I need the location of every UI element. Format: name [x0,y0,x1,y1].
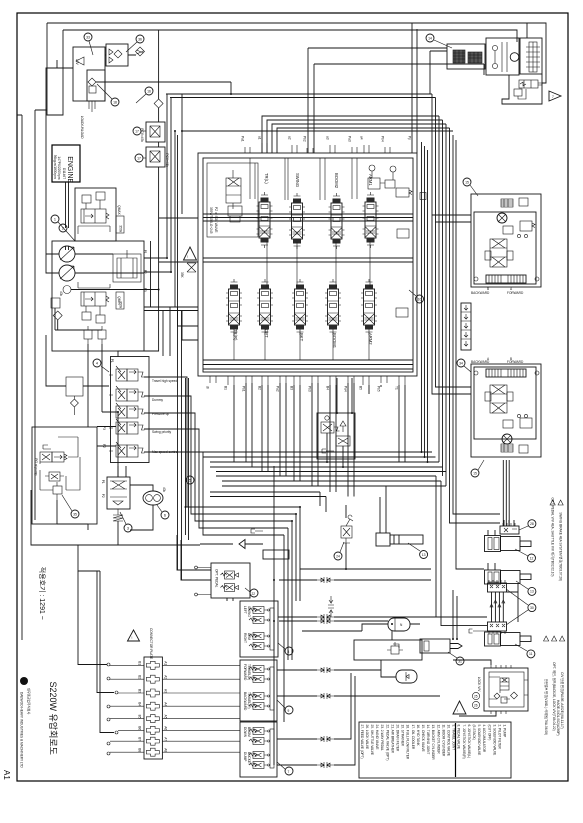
svg-text:Pb2: Pb2 [302,136,306,142]
spool BOOM2 [329,193,345,249]
check diamond mid [239,540,245,549]
svg-text:적용호기 : 1291 ~: 적용호기 : 1291 ~ [38,567,47,620]
filter diamond D18 [154,99,163,108]
wire x150 drop [150,241,152,307]
svg-text:2. PILOT FILTER: 2. PILOT FILTER [498,725,502,750]
svg-text:B3: B3 [138,689,142,693]
svg-text:21. AIR BREATHER: 21. AIR BREATHER [390,725,394,754]
boom cylinder 3 piston [488,634,492,644]
junction dot [427,461,429,463]
callout 33 [84,33,92,41]
svg-text:12. ARM CYLINDER: 12. ARM CYLINDER [436,725,440,755]
callout 17 [135,154,143,162]
wire riser pair b [177,135,179,307]
wire nested corner 3 [272,124,446,153]
tank gallery line 3 [203,368,413,370]
svg-text:56kg-m/1800rpm: 56kg-m/1800rpm [53,155,57,179]
boom cylinder 1 barrel [501,537,521,551]
negative control relief box [317,413,355,459]
wire long y544 [118,544,200,546]
boom hold circle a [369,165,375,171]
svg-text:(CUT OFF): (CUT OFF) [487,725,491,741]
wire cylinder13 risers [380,486,386,533]
svg-text:DUMP: DUMP [243,752,247,761]
small inline valve on bundle [420,193,426,200]
junction dot [230,93,232,95]
daewoo logo mark [20,677,28,685]
main relief square [51,298,60,308]
svg-text:Pa3: Pa3 [347,136,351,142]
svg-text:A3: A3 [164,689,168,693]
wire right bundle v5 [445,124,447,486]
svg-text:PCV=45k: PCV=45k [140,128,144,142]
junction dot [170,271,172,273]
svg-text:P3: P3 [102,426,106,430]
joystick group 3 box [240,722,277,777]
wire main pressure line y97 [170,97,436,99]
svg-text:25: 25 [474,695,478,699]
filter diamond F1 [114,50,122,58]
bolt circle left [474,277,478,281]
wire bundle A3 [216,471,446,473]
swing relief box [447,44,485,69]
pilot part bottom right [519,445,528,453]
bolt circle right [535,277,539,281]
svg-text:24. HAND VALVE: 24. HAND VALVE [375,725,379,750]
svg-text:B1: B1 [223,386,227,390]
svg-text:18: 18 [113,100,117,104]
svg-text:6: 6 [164,513,166,517]
svg-text:A1: A1 [2,770,11,780]
callout 10 [416,295,424,303]
travel motor 2 M [502,434,512,444]
wire bank drop 1 [234,383,405,497]
accumulator capsule [388,618,410,631]
svg-text:15. CHECK VALVE: 15. CHECK VALVE [421,725,425,752]
pump main box [52,241,144,351]
bucket cylinder piston [424,641,429,651]
air breather box 33 [73,47,105,101]
svg-text:Pa1: Pa1 [240,136,244,142]
wire vertical x417 [416,29,418,153]
wire pump outlet P2 [75,98,171,274]
negcon pilot circle [325,416,329,420]
wire left edge long [17,115,22,640]
svg-text:A4: A4 [164,702,168,706]
pilot part top right [519,198,528,206]
svg-text:5. SOLENOID VALVE: 5. SOLENOID VALVE [477,725,481,756]
svg-text:BOOM2: BOOM2 [334,173,339,189]
junction dot [181,130,183,132]
svg-text:26: 26 [474,704,478,708]
counterbalance spool [490,239,507,267]
boom cylinder 3 cap [485,632,501,646]
svg-text:A7: A7 [164,737,168,741]
shuttle circles [517,234,520,237]
junction dot [185,506,187,508]
boom cylinder 1 rod [520,541,531,547]
svg-text:BKT: BKT [299,333,304,342]
callout 26 [472,701,479,708]
svg-text:P1: P1 [143,250,147,254]
wire pilot supply rc [273,466,275,765]
callout 12 [528,554,536,562]
svg-text:B1: B1 [138,661,142,665]
travel motor 1 inner box [474,212,536,284]
spool TR(R) [226,279,242,335]
wire return line r2 [203,456,436,458]
svg-text:QMAX: QMAX [117,205,121,215]
pilot valve a [40,452,52,462]
svg-text:19. STRAINER: 19. STRAINER [401,725,405,747]
svg-text:B2: B2 [257,386,261,390]
svg-text:대우중공업주식회사: 대우중공업주식회사 [27,688,32,714]
joystick group 1 box [240,601,278,657]
wire qd row a line [279,579,431,581]
svg-text:BACKWARD: BACKWARD [243,692,247,711]
svg-text:36: 36 [138,37,142,41]
connector cross 5 [146,715,159,723]
spool ARM2 [361,279,377,335]
callout 6 [161,511,169,519]
junction dot [295,513,297,515]
junction dot [421,451,423,453]
svg-text:ARM2: ARM2 [368,333,373,345]
boom hold circle b [390,166,396,172]
check valve box [106,44,128,66]
svg-text:7: 7 [288,770,290,774]
swing lower box [502,74,542,104]
pump P2 [59,265,75,281]
pump P1 [59,246,75,262]
drive shaft [66,182,69,228]
svg-text:30: 30 [530,606,534,610]
wire return line r1 [203,451,432,453]
svg-text:CONNECTOR PLATE: CONNECTOR PLATE [149,628,153,659]
callout 16 [145,87,153,95]
E vent symbol [469,629,487,633]
wire bundle A4 [216,476,487,617]
wire p2 supply a [144,306,198,308]
svg-text:11: 11 [529,652,533,656]
rc valves boom/bucket [253,728,264,735]
svg-text:13: 13 [530,590,534,594]
wire breather to filter [105,54,136,56]
svg-text:OPT: OPT [264,329,269,338]
svg-text:35: 35 [73,512,77,516]
wire top bus 1 [47,23,546,83]
work port risers row1 [250,158,357,200]
wire sol outputs 4 [144,429,288,660]
mid gallery line 2 [203,261,413,263]
wire pedal to group1 [227,598,233,601]
svg-text:PZ of SOL VALVE: PZ of SOL VALVE [214,207,218,232]
bucket cylinder barrel [420,639,450,653]
counterbalance pilot 2 [520,418,532,428]
brake shoe band 2 [486,369,526,377]
travel motor 2 inner box [474,367,536,439]
svg-text:14. TURNING JOINT: 14. TURNING JOINT [426,725,430,755]
svg-text:17: 17 [135,129,139,133]
rc valves travel [253,666,264,673]
wire pump drains [55,308,118,477]
wire drain to bus [430,51,484,94]
solenoid valve 5 [116,445,127,457]
svg-text:RIGHT: RIGHT [243,633,247,643]
bolt circle left 2 [474,371,478,375]
wire pg line y131 [182,130,453,132]
junction dot [273,579,275,581]
hose connector strip [461,303,471,350]
counterbalance pilot [520,221,532,231]
swing motor M [510,53,519,62]
main control valve inner box [203,158,413,372]
relief bowtie 35K [187,263,196,272]
wire right bundle v0a [421,142,423,452]
wire tank line x35 [35,110,47,520]
wire nested corner 1 [262,116,439,153]
svg-text:LEFT: LEFT [243,606,247,614]
wire sol feeds top [163,307,170,356]
wire right bundle v3 [438,116,440,462]
manifold upper [488,583,507,592]
svg-text:FORWARD: FORWARD [507,360,524,364]
svg-text:28: 28 [530,522,534,526]
svg-text:13. BUCKET CYLINDER: 13. BUCKET CYLINDER [431,725,435,761]
warning triangle right [549,91,561,101]
svg-text:1: 1 [54,217,56,221]
hose burst valve top [500,526,519,534]
svg-text:B6: B6 [138,726,142,730]
junction dot [273,620,275,622]
svg-text:13: 13 [422,553,426,557]
brake ladder [529,42,537,72]
wire nested corner 2 [267,120,443,153]
relief oval 40k pair [143,491,163,505]
svg-text:6. JOYSTICK VALVE(L): 6. JOYSTICK VALVE(L) [467,725,471,759]
svg-text:22. PEDAL VALVE (OPT): 22. PEDAL VALVE (OPT) [385,725,389,761]
solenoid valve 1 [116,369,127,381]
wire pilot line to swing B [314,63,484,65]
svg-text:18. FULL FLOW FILTER: 18. FULL FLOW FILTER [406,725,410,760]
wire bundle A6 [222,485,446,487]
regulator upper pilot parts [82,195,91,203]
wire vertical x308 [307,48,309,153]
junction dot [456,638,458,640]
svg-text:9. TRAVEL JOINT: 9. TRAVEL JOINT [452,725,456,751]
relief hatch bottom [501,444,513,452]
mini label plate lower [116,292,124,309]
pedal valve a [225,571,235,579]
swing relief valve B [468,52,482,63]
arm cylinder rod line [394,535,399,544]
svg-text:S220W 유압회로도: S220W 유압회로도 [48,682,59,755]
wire right bundle v0c [427,150,429,462]
port stubs top [245,143,390,153]
junction dot [391,623,393,625]
servo piston box [113,254,141,282]
svg-text:P1: P1 [110,359,114,363]
callout 35 [71,510,79,518]
svg-text:T1: T1 [394,386,398,390]
callout 28 [528,520,536,528]
wire pilot corridor ext b [181,311,183,581]
wire pedal supply [177,535,211,580]
svg-text:26. LOCK VALVE: 26. LOCK VALVE [365,725,369,750]
pilot partition box [207,163,258,237]
warning triangle lock [453,701,466,714]
svg-text:(5-STACK): (5-STACK) [472,725,476,740]
connector plate box [144,657,162,759]
spool TR(L) [257,192,273,248]
svg-text:!: ! [187,255,188,259]
svg-text:B2: B2 [138,675,142,679]
svg-text:10. CONTROL VALVE: 10. CONTROL VALVE [447,725,451,756]
wire sol inputs left [97,427,116,447]
callout 15 [463,178,471,186]
wire unload to pg [96,82,231,94]
svg-text:2: 2 [62,226,64,230]
pedal terminals [197,568,211,595]
center bypass line 2 [203,217,413,219]
spool SWING [289,193,305,249]
svg-text:Dummy: Dummy [152,398,163,402]
brake shoe band [486,275,526,283]
boom hold valve b [385,180,395,188]
svg-text:16: 16 [147,89,151,93]
callout 5 [186,476,194,484]
svg-text:TR(R): TR(R) [233,329,238,341]
svg-text:1. PUMP: 1. PUMP [503,725,507,738]
mini label plate upper [116,216,124,233]
shuttle circles 2 [517,414,520,417]
check valve b [492,63,497,68]
svg-text:31: 31 [458,659,462,663]
mid gallery line 1 [203,257,413,259]
svg-text:9: 9 [288,709,290,713]
drive shaft into pump [66,246,69,250]
note triangle 2b [552,636,557,641]
wire sol block left [46,335,66,386]
wire pump outlet P1 [75,94,167,258]
wire staircase 1 [31,490,100,571]
svg-text:27. FEED VALVE (OPT): 27. FEED VALVE (OPT) [360,725,364,759]
pilot reducing valve column [107,477,130,509]
boom hold valve a [368,178,380,189]
svg-text:D1146T: D1146T [62,168,66,179]
warning triangle connector [128,630,140,641]
wire bundle B1 [210,492,320,506]
connector cross 6 [146,726,159,734]
pilot line entering block [83,385,109,387]
connector cross 8 [146,748,159,756]
connector cross 2 [146,675,159,683]
note triangle 1a [550,500,555,505]
quick disconnect row a [317,577,334,583]
junction dot [342,466,344,468]
quick disconnect col 3 [317,693,334,699]
callout 2 [59,224,67,232]
svg-text:B7: B7 [138,737,142,741]
svg-text:4. ACCUMULATOR: 4. ACCUMULATOR [482,725,486,753]
wire travel1 inlet b [436,221,472,223]
lock valve box [484,668,528,711]
svg-text:HAOE-0401-S02(A289P): HAOE-0401-S02(A289P) [556,700,560,736]
boom cylinder 2 piston [488,572,492,582]
negcon drop wires [327,433,343,467]
wire right column drop [503,460,509,526]
svg-text:a4: a4 [359,136,363,140]
svg-text:DOWN: DOWN [243,727,247,738]
regulator lower valve [81,292,106,306]
svg-text:23. 2-WAY PEDAL: 23. 2-WAY PEDAL [380,725,384,752]
callout 30 [528,604,536,612]
callout 4 [93,359,101,367]
pedal valve box 22 [211,563,250,598]
wire connector feeds [78,571,114,733]
pilot relief sym a [150,126,160,137]
lock valve spool [500,678,509,690]
arm cylinder body [390,535,423,544]
junction dot [117,411,119,413]
wire riser pair a [174,131,176,307]
lock valve check circle [494,690,510,699]
svg-text:FORWARD: FORWARD [243,664,247,681]
wire pg to bank left [159,131,198,262]
manifold pipes [492,592,504,622]
svg-text:DAEWOO HEAVY INDUSTRIES & MACH: DAEWOO HEAVY INDUSTRIES & MACHINERY LTD [20,692,24,768]
pump pilot control box [32,427,97,524]
wire hand valve [300,505,431,569]
svg-text:A6: A6 [164,726,168,730]
leader lines rc [245,588,285,769]
wire main pressure line y94 [166,93,432,95]
wires pilot block bottom [57,500,88,530]
spool BKT [292,279,308,335]
side check blocks [485,251,491,260]
svg-text:34: 34 [459,361,463,365]
anti-inversion valve M/L [519,80,538,88]
boom cylinder 3 barrel [501,633,521,646]
lock valve small parts [501,697,507,703]
check valve arrows [109,49,113,63]
check filter left of block [66,377,83,396]
wire bundle A1 [210,461,439,463]
counterbalance spool 2 [490,385,507,413]
svg-text:355V/745B-G+245: 355V/745B-G+245 [209,207,213,234]
regulator lower pilot parts [82,312,91,320]
svg-text:B: B [487,287,489,291]
wire breather drop [89,101,95,112]
callout 36 [136,35,144,43]
svg-text:B4: B4 [138,702,142,706]
pilot relief c [53,486,62,494]
negcon relief [336,436,350,446]
speed valve 2 [503,420,513,428]
svg-text:Swing priority: Swing priority [152,430,172,434]
wire cylinder ports [453,520,514,639]
wire box to left [57,60,73,68]
svg-text:OPT. PEDAL: OPT. PEDAL [215,569,219,588]
junction box mid [263,550,289,559]
wire lock valve feeds [453,660,496,716]
svg-text:12: 12 [530,556,534,560]
pump regulator upper box [75,188,116,241]
svg-text:Pa2: Pa2 [275,386,279,392]
relief small left [228,206,242,216]
wire bundle A2 [210,466,443,468]
joystick group 2 box [240,660,277,721]
